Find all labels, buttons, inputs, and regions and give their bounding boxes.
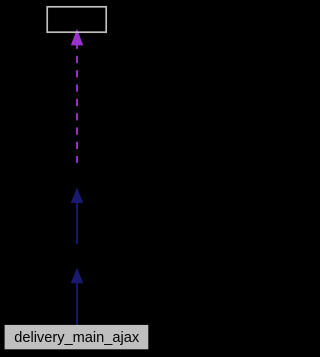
svg-text:delivery_main_ajax: delivery_main_ajax	[14, 330, 140, 346]
wire: solid include edge 2 (midnightblue)	[71, 268, 84, 326]
wire: solid include edge 1 (midnightblue)	[71, 187, 84, 244]
wire: dashed usage edge (darkorchid) with arrowhead up into top box	[71, 29, 83, 163]
node: undocumented top file (grey border, empty-looking)	[47, 7, 106, 32]
node: delivery_main_ajax (current file, grey filled)	[5, 325, 149, 349]
